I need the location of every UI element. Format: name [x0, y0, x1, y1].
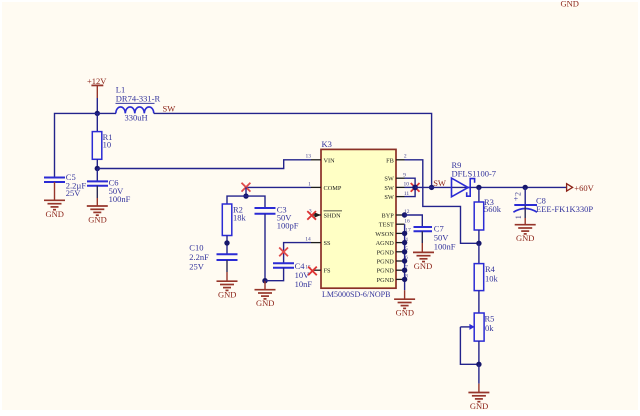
wire divider junction to R4	[478, 243, 480, 263]
svg-text:14: 14	[305, 237, 311, 243]
pin 14 SS	[305, 237, 331, 248]
pin 1 COMP	[308, 181, 342, 192]
no-ERC marker X on COMP	[242, 183, 251, 192]
resistor R1	[92, 132, 102, 160]
wire FB feedback path	[405, 160, 479, 244]
wire RC branch to C3	[246, 196, 265, 208]
designator label R3	[484, 197, 494, 207]
wire SW net: inductor to vertical drop	[154, 113, 432, 187]
pin 9 SW	[384, 172, 406, 182]
no-ERC marker X on SHDN	[307, 211, 316, 220]
power port +60V	[567, 183, 595, 193]
junction node R2-C10	[224, 240, 229, 245]
junction node PGND 7	[402, 268, 407, 273]
capacitor C6	[87, 181, 108, 185]
capacitor C8 (polarized)	[513, 192, 537, 219]
value label 330uH	[125, 113, 148, 123]
wire TEST-WSON-AGND-PGND tie line	[404, 224, 406, 290]
ground under IC pins	[394, 290, 415, 317]
svg-text:EEE-FK1K330P: EEE-FK1K330P	[536, 204, 593, 214]
value label LM5000SD-6/NOPB	[322, 290, 390, 299]
no-ERC marker X on SW pin 10	[411, 183, 420, 192]
svg-text:GND: GND	[218, 290, 236, 300]
svg-text:330uH: 330uH	[125, 113, 148, 123]
svg-text:GND: GND	[396, 308, 414, 318]
svg-text:BYP: BYP	[382, 213, 395, 220]
svg-text:10: 10	[103, 140, 112, 150]
designator label R5	[485, 314, 495, 324]
value label EEE-FK1K330P	[536, 204, 593, 214]
svg-text:SW: SW	[384, 176, 394, 183]
junction node AGND	[402, 240, 407, 245]
junction node diode output	[476, 185, 481, 190]
junction node C8 tap	[523, 185, 528, 190]
ground under C7	[413, 231, 434, 271]
svg-text:GND: GND	[88, 214, 106, 224]
capacitor C3	[255, 208, 276, 214]
svg-text:VIN: VIN	[324, 157, 336, 164]
pin 6 PGND	[377, 255, 409, 265]
svg-text:K3: K3	[322, 139, 332, 149]
svg-text:AGND: AGND	[376, 240, 395, 247]
pin 5 PGND	[377, 246, 409, 256]
value label C6 50V 100nF	[109, 177, 131, 204]
ground under C5	[44, 182, 65, 219]
svg-text:SW: SW	[384, 185, 394, 192]
value label DR74-331-R	[116, 94, 161, 104]
wire junction to ground	[478, 364, 480, 383]
designator label K3	[322, 139, 332, 149]
resistor R2	[222, 204, 232, 236]
svg-text:10nF: 10nF	[295, 279, 313, 289]
ground under C3	[255, 281, 276, 308]
junction node B	[95, 166, 100, 171]
svg-text:2: 2	[514, 192, 523, 196]
value label C3 50V 100pF	[277, 204, 299, 230]
pin 17 WSON	[375, 228, 411, 238]
svg-text:1: 1	[514, 215, 523, 219]
junction node C3-C4 ground	[262, 278, 267, 283]
svg-text:100nF: 100nF	[434, 242, 456, 252]
wire VIN net to pin 13	[97, 160, 311, 169]
svg-text:R5: R5	[485, 314, 495, 324]
capacitor C4	[273, 263, 294, 268]
svg-text:560k: 560k	[484, 204, 502, 214]
wire junction A to inductor	[97, 112, 116, 114]
pin 13 VIN	[305, 154, 335, 165]
pin 4 AGND	[376, 237, 409, 247]
junction node WSON	[402, 231, 407, 236]
wire RC branch to R2	[227, 196, 246, 204]
value label 10	[103, 140, 112, 150]
value label 18k	[233, 213, 247, 223]
inductor L1	[116, 107, 154, 113]
svg-text:FB: FB	[386, 157, 394, 164]
wire junction A down to R1	[96, 113, 98, 131]
op-amp regulator IC U/K3 body	[321, 149, 396, 288]
junction node SW tie	[412, 185, 418, 191]
no-ERC marker X on SS wire	[279, 248, 288, 257]
wire R3 to divider junction	[478, 230, 480, 243]
wire R5 bottom to junction	[478, 341, 480, 364]
pin 16 TEST	[379, 218, 410, 228]
svg-text:GND: GND	[256, 298, 274, 308]
svg-text:GND: GND	[561, 0, 579, 9]
junction node PGND 8	[402, 277, 407, 282]
SW pins tie bar wire	[405, 178, 416, 196]
pin 12 BYP	[382, 209, 410, 220]
svg-text:DR74-331-R: DR74-331-R	[116, 94, 161, 104]
pin 7 PGND	[377, 264, 409, 274]
power port +12V	[87, 76, 107, 98]
svg-text:PGND: PGND	[377, 249, 395, 256]
wire R5 wiper to bottom	[460, 327, 479, 364]
svg-text:LM5000SD-6/NOPB: LM5000SD-6/NOPB	[322, 290, 390, 299]
svg-text:SW: SW	[163, 104, 176, 114]
pin 8 PGND	[377, 274, 409, 284]
svg-text:COMP: COMP	[324, 185, 342, 192]
wire C8 tap down	[524, 187, 526, 204]
svg-text:25V: 25V	[66, 188, 82, 198]
value label 0k	[485, 323, 494, 333]
svg-text:SW: SW	[384, 194, 394, 201]
capacitor C10	[217, 254, 238, 260]
diode R9 (Schottky)	[452, 178, 475, 197]
svg-text:FS: FS	[324, 268, 332, 275]
ground under C6	[87, 186, 108, 225]
designator label R1	[103, 132, 113, 142]
wire COMP pin to X	[246, 186, 311, 188]
net label GND (top right)	[561, 0, 579, 9]
designator label C8	[536, 195, 546, 205]
ground under R5	[468, 384, 489, 411]
net label SW (right)	[433, 178, 446, 188]
junction node A	[95, 111, 100, 116]
svg-text:+60V: +60V	[574, 183, 594, 193]
svg-text:SS: SS	[324, 240, 332, 247]
designator label R9	[452, 160, 462, 170]
wire junction B down to C6	[96, 169, 98, 182]
value label C5 2.2uF 25V	[66, 172, 87, 198]
capacitor C5	[44, 178, 65, 183]
pin 3 SHDN (active low)	[309, 209, 342, 220]
designator label R4	[485, 264, 496, 274]
potentiometer R5	[460, 313, 484, 341]
net label SW (left)	[163, 104, 176, 114]
svg-text:DFLS1100-7: DFLS1100-7	[452, 168, 497, 178]
wire SS pin to C4	[284, 243, 311, 263]
pin 10 SW	[384, 182, 409, 192]
svg-text:PGND: PGND	[377, 277, 395, 284]
wire BYP pin to C7	[405, 215, 423, 226]
wire +12V stem to junction	[96, 98, 98, 113]
svg-text:10k: 10k	[485, 274, 499, 284]
value label C10 2.2nF 25V	[189, 242, 209, 271]
junction node SW drop	[429, 185, 434, 190]
svg-text:WSON: WSON	[375, 231, 394, 238]
value label 560k	[484, 204, 502, 214]
wire diode output down to R3	[478, 187, 480, 202]
wire diode to +60V rail	[470, 186, 566, 188]
wire R2 to C10	[226, 236, 228, 254]
designator label L1	[116, 85, 125, 95]
designator label R2	[233, 204, 243, 214]
svg-text:PGND: PGND	[377, 268, 395, 275]
value label DFLS1100-7	[452, 168, 497, 178]
ground under C8	[515, 206, 536, 244]
wire COMP drop to RC branch	[245, 187, 247, 196]
svg-text:PGND: PGND	[377, 259, 395, 266]
value label C4 10V 10nF	[295, 261, 313, 289]
junction node PGND 5	[402, 249, 407, 254]
junction node R5 bottom	[476, 362, 481, 367]
svg-text:SHDN: SHDN	[324, 213, 342, 220]
wire junction A left to C5 branch	[55, 113, 98, 176]
wire C3 down to ground junction	[264, 214, 266, 281]
svg-text:18k: 18k	[233, 213, 247, 223]
junction node COMP RC	[243, 193, 248, 198]
svg-text:GND: GND	[414, 261, 432, 271]
pin 15 FS	[305, 264, 331, 274]
svg-text:2.2nF: 2.2nF	[189, 252, 209, 262]
wire R1 to junction B	[96, 159, 98, 168]
svg-text:C10: C10	[189, 242, 203, 252]
no-ERC marker X on FS	[308, 267, 317, 276]
svg-text:1: 1	[308, 181, 311, 187]
svg-text:GND: GND	[516, 233, 534, 243]
ground under C10	[217, 260, 238, 300]
resistor R4	[474, 264, 484, 291]
svg-text:16: 16	[404, 218, 410, 224]
svg-text:25V: 25V	[189, 261, 205, 271]
svg-text:GND: GND	[470, 401, 488, 411]
svg-text:0k: 0k	[485, 323, 494, 333]
junction node divider	[476, 241, 481, 246]
svg-text:2: 2	[404, 154, 407, 160]
value label C7 50V 100nF	[434, 223, 456, 251]
svg-text:100nF: 100nF	[109, 194, 131, 204]
svg-text:TEST: TEST	[379, 222, 394, 229]
wire R4 to R5	[478, 291, 480, 313]
wire SW node to diode	[415, 186, 470, 188]
svg-text:GND: GND	[46, 209, 64, 219]
resistor R3	[474, 202, 484, 230]
svg-text:13: 13	[305, 154, 311, 160]
capacitor C7	[414, 227, 433, 231]
pin 11 SW	[384, 191, 409, 201]
junction node PGND 6	[402, 258, 407, 263]
svg-text:100pF: 100pF	[277, 221, 299, 231]
pin 2 FB	[386, 154, 407, 165]
junction node BYP	[402, 212, 407, 217]
wire C4 to ground junction	[265, 268, 284, 281]
svg-text:SW: SW	[433, 178, 446, 188]
value label 10k	[485, 274, 499, 284]
